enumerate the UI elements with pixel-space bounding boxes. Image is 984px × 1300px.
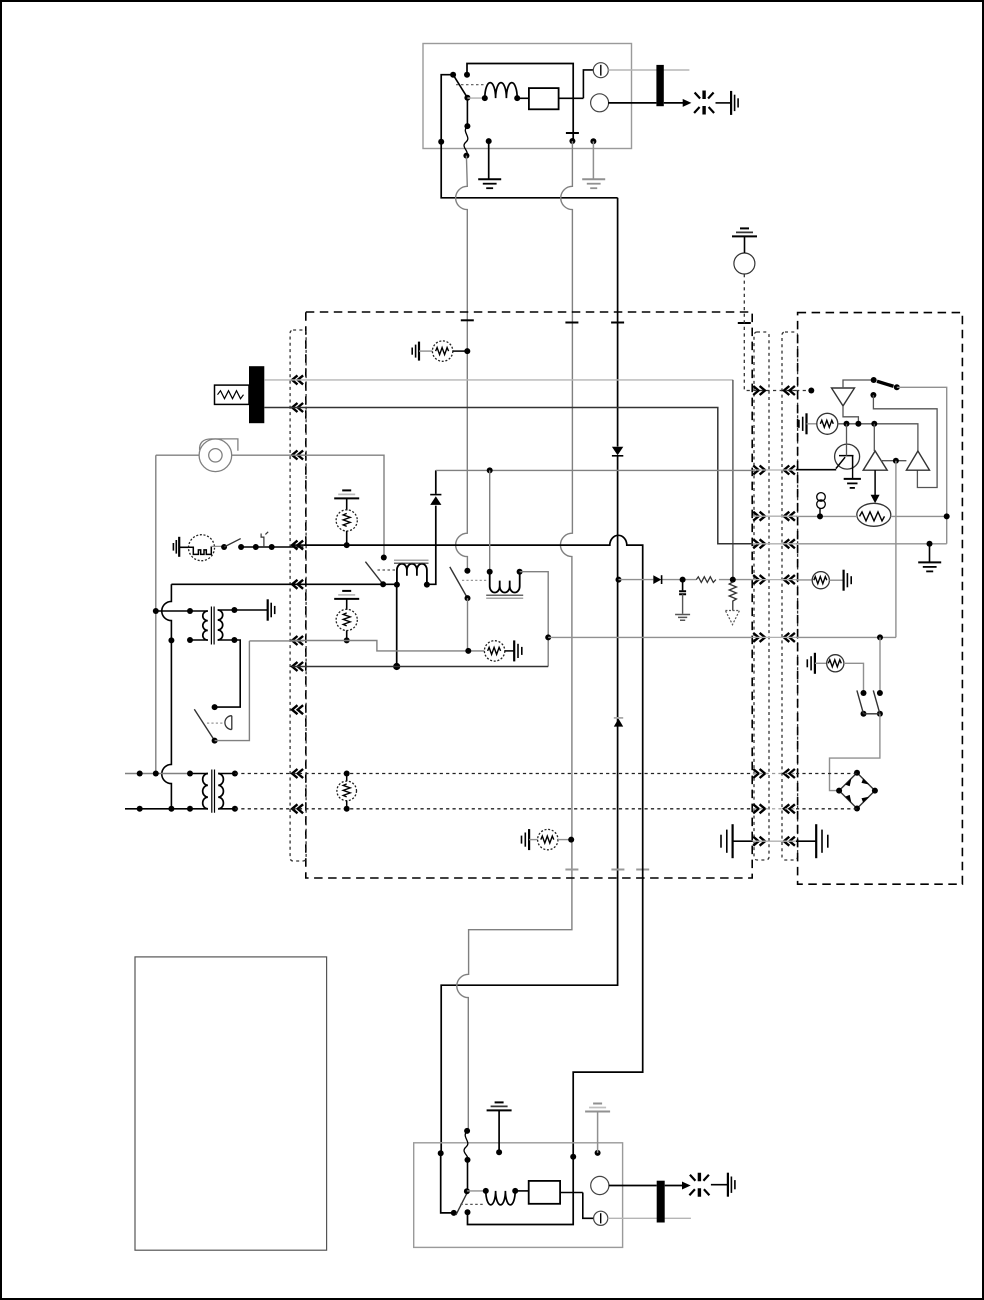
wire branch to lamp (583, 70, 593, 98)
legend box (empty) (135, 957, 327, 1250)
node (817, 513, 823, 519)
node pin (464, 1128, 470, 1134)
wire lead to blade contact (467, 1160, 469, 1191)
wire contact2 path (873, 395, 937, 488)
tick feedthrough (636, 869, 649, 871)
connector pin chevron (784, 466, 795, 475)
sensor resistor R6 (529, 839, 538, 841)
node pin (569, 138, 575, 144)
tick feedthrough (611, 869, 624, 871)
wire row 584 (171, 583, 396, 585)
bridge rectifier D1 (839, 773, 875, 809)
connector pin chevron (784, 633, 795, 642)
connector pin chevron (292, 541, 303, 550)
amplifier A2 (906, 451, 929, 470)
dotted wire row 809 (235, 808, 753, 810)
connector terminal block (656, 65, 663, 106)
connector pin chevron (292, 403, 303, 412)
bus row wires (753, 469, 798, 471)
node (465, 648, 471, 654)
module block lower (529, 1181, 560, 1204)
wire L2 out (520, 572, 549, 667)
ground bars (805, 413, 807, 434)
tick feedthrough (566, 132, 579, 134)
connector pin chevron (292, 804, 303, 813)
connector pin chevron (292, 769, 303, 778)
node pin (438, 1150, 444, 1156)
amplifier A1 (863, 451, 887, 470)
wire DS3 to connector (609, 1185, 657, 1187)
transformer T2 secondary (218, 774, 223, 809)
node (871, 377, 877, 383)
wire top rail (467, 64, 573, 142)
indicator lamp DS1 (593, 63, 608, 78)
lamp DS4 (594, 1211, 608, 1225)
ground bars left of row841 (731, 824, 733, 858)
connector pin chevron (753, 804, 765, 813)
wire amp1 feed (873, 424, 875, 451)
wire switch feed drop (879, 637, 881, 693)
solenoid coil L2 (487, 569, 493, 575)
flexible lead squiggle (464, 126, 468, 156)
node pin (590, 138, 596, 144)
node S3 contact (381, 555, 387, 561)
wire L1 to module (517, 97, 529, 99)
thermistor RT1 ellipse (857, 503, 891, 526)
wire coil left drop (396, 584, 398, 666)
wire S4 pivot drop (467, 598, 469, 651)
wire left vertical (441, 75, 453, 142)
wire selector to column (897, 387, 947, 544)
chassis ground bars (727, 1173, 729, 1197)
wire drop to L2 (489, 470, 491, 571)
diode CR2 down (612, 447, 623, 456)
S6 linkage (460, 1203, 485, 1205)
connector pin chevron (784, 539, 795, 548)
wire row 809 left (125, 808, 190, 810)
node (894, 384, 900, 390)
node (253, 544, 259, 550)
node pin (496, 1149, 502, 1155)
chassis ground bars (730, 91, 732, 115)
connector pin chevron (292, 636, 303, 645)
transformer T1 secondary (218, 610, 223, 640)
inverted ground above sensor (740, 227, 749, 229)
tick feedthrough (611, 322, 624, 324)
wire module output (559, 97, 584, 99)
wire black drop line x618 (441, 198, 617, 1154)
connector pin chevron (784, 769, 795, 778)
node (168, 637, 174, 643)
dual switch S5 (861, 690, 867, 696)
wire row 637 (796, 636, 896, 638)
wire row 516 (796, 515, 947, 517)
relay K1 core (394, 559, 429, 561)
gas sensor circle (734, 253, 755, 274)
wire blower row (156, 455, 384, 557)
wire motor row (241, 546, 303, 548)
wire row 579 (619, 579, 753, 581)
wire R4 to ground (505, 650, 514, 652)
dotted wires to bridge (796, 774, 857, 809)
node (344, 637, 350, 643)
inductor L1 (467, 97, 484, 99)
node (870, 392, 876, 398)
ground G2 (592, 141, 594, 179)
buzzer (225, 716, 232, 730)
lamp DS2 (591, 94, 609, 112)
wire row 611 (156, 610, 190, 612)
connector pin chevron (753, 633, 765, 642)
connector pin chevron (292, 662, 303, 671)
node (855, 421, 861, 427)
wire L-return run (441, 142, 617, 198)
connector pin chevron (784, 575, 795, 584)
motor ground bars (178, 537, 180, 557)
resistor heater block (215, 385, 250, 404)
top unit enclosure box (423, 44, 632, 149)
node (137, 771, 143, 777)
ground bars right of row841 (796, 840, 816, 842)
relay coil K1 (394, 582, 400, 588)
wire row 544 (796, 543, 947, 545)
ground bars (513, 640, 515, 661)
node (568, 837, 574, 843)
wire switch feed drop (383, 557, 385, 559)
connector pin chevron (292, 375, 303, 384)
transformer T1 primary (187, 608, 193, 614)
node (393, 663, 400, 670)
wire A1-A2 link (881, 460, 906, 462)
wire return path (468, 1157, 574, 1225)
open triangle ground (732, 605, 734, 611)
transistor Q1 (835, 444, 860, 469)
node (877, 634, 883, 640)
wire row 470 into Q1 (796, 469, 836, 471)
node door contact (212, 704, 218, 710)
wire row1 drop (732, 380, 734, 580)
inverter U1 (832, 388, 855, 406)
control board box (dashed) (306, 312, 752, 878)
wire motor to switch (211, 545, 224, 548)
ground bars (842, 570, 844, 591)
ground bars (814, 653, 816, 674)
tick feedthrough (565, 322, 578, 324)
connector pin chevron (784, 512, 795, 521)
resistor R8 vertical zigzag (729, 582, 736, 605)
wire diode branch (427, 470, 436, 584)
S3 linkage (378, 569, 396, 571)
spark igniter starburst (702, 91, 705, 115)
node (545, 634, 551, 640)
node (168, 806, 174, 812)
wire bar to connector row1 (264, 379, 733, 381)
node (137, 806, 143, 812)
node (344, 542, 350, 548)
node (680, 577, 686, 583)
ground bars (528, 829, 530, 850)
ground G1 (488, 141, 490, 179)
ground under C1 (675, 615, 690, 621)
igniter resistor R4 (484, 641, 504, 661)
wire igniter to chassis (716, 102, 732, 104)
connector pin chevron (753, 769, 765, 778)
connector pin chevron (753, 466, 765, 475)
wire door return (215, 641, 250, 741)
node (844, 421, 850, 427)
wire left drop x155 (155, 455, 157, 773)
switch S1 linkage (456, 84, 484, 86)
wire row 666 (292, 666, 548, 668)
bias resistor R10 (796, 579, 812, 581)
wire igniter to chassis (711, 1184, 728, 1186)
node (893, 458, 899, 464)
wire motor row continue (292, 544, 304, 546)
wire row 773 left (125, 773, 190, 775)
wire A-output column (895, 461, 897, 638)
inverted ground above box (black) (498, 1110, 500, 1152)
thermostat TH1 (261, 532, 268, 547)
diode CR1 up (430, 496, 441, 505)
connector pin chevron (753, 386, 765, 395)
blower fan B1 (199, 439, 232, 472)
wire x643 to lower unit (573, 870, 643, 1157)
wire bar to connector row2 (264, 408, 753, 544)
wire motor row inside board (303, 535, 642, 869)
tick feedthrough (461, 319, 474, 321)
node (269, 544, 275, 550)
wire T1 sec top to ground (234, 609, 267, 611)
flexible lead squiggle (464, 1131, 468, 1160)
wire x171 drop (162, 584, 172, 809)
node (487, 467, 493, 473)
bias resistor R11 (815, 662, 827, 664)
tick feedthrough (738, 322, 751, 324)
T1 core (211, 607, 214, 645)
node sensor wire end (808, 388, 814, 394)
inverted ground (342, 590, 351, 592)
buzzer linkage (207, 722, 224, 724)
ground bars (418, 342, 420, 361)
wire node row 424 (838, 424, 918, 451)
connector pin chevron (784, 386, 795, 395)
connector pin chevron (292, 451, 303, 460)
tick feedthrough (565, 869, 578, 871)
connector housing left (dotted) (290, 330, 306, 861)
inductor L3 (467, 1190, 486, 1192)
switch S1 blade (450, 72, 456, 78)
connector housing right A (dotted) (754, 332, 769, 860)
wire U1 top feed (843, 380, 874, 388)
connector pin chevron (753, 512, 765, 521)
wire ground to motor (179, 546, 188, 548)
sensor board box (dashed) (798, 313, 963, 885)
terminal bar (black) (249, 366, 264, 423)
node pin (570, 1154, 576, 1160)
node (730, 577, 736, 583)
ground bars (267, 599, 269, 620)
wire gray drop line x571 (457, 141, 573, 1131)
selector switch blade (877, 381, 894, 386)
wire branch to lamp (583, 1193, 594, 1219)
wire L3 to module (515, 1190, 529, 1192)
module block (magnetron driver) (529, 88, 559, 109)
wire T1 sec bottom (215, 640, 241, 707)
connector pin chevron (753, 575, 765, 584)
noise filter resistor R1 (346, 498, 348, 510)
bias resistor R9 (807, 423, 817, 425)
wire module out (560, 1192, 583, 1194)
filter resistor R0 (419, 350, 432, 352)
connector pin chevron (292, 580, 303, 589)
wire DS4 to connector (608, 1217, 691, 1219)
motor M1 (189, 535, 215, 561)
node switch contact (464, 72, 470, 78)
S4 linkage (462, 579, 488, 581)
connector terminal block lower (657, 1181, 665, 1223)
thermal fuse F1 (819, 508, 821, 516)
wire lamp DS2 to connector (608, 102, 656, 104)
switch S3 blade (365, 562, 383, 585)
connector pin chevron (753, 539, 765, 548)
capacitor C1 (682, 580, 684, 591)
ground K (929, 544, 931, 562)
diode CR3 (653, 575, 661, 584)
node (153, 771, 159, 777)
lamp DS3 (591, 1176, 609, 1194)
dotted sensor wire (744, 274, 797, 391)
transformer T2 primary (187, 771, 193, 777)
node pin (595, 1150, 601, 1156)
wire A1 base arrow (874, 470, 876, 495)
wire left drop in box (441, 1153, 454, 1213)
node pin (438, 139, 444, 145)
node (153, 608, 159, 614)
spark igniter starburst lower (698, 1173, 701, 1197)
switch S4 blade (450, 567, 468, 598)
noise filter resistor R2 (346, 599, 348, 610)
node (465, 1157, 471, 1163)
node pin (486, 138, 492, 144)
node open contact (465, 1209, 471, 1215)
wire U1 output jog (843, 406, 858, 424)
ground under Q1 (844, 478, 861, 480)
door switch blade (194, 709, 214, 740)
inverted ground above box (gray) (597, 1112, 599, 1153)
inverted ground (342, 489, 351, 491)
L2 core (486, 594, 523, 596)
lamp resistor R5 (344, 771, 350, 777)
switch S2 blade (221, 544, 227, 550)
connector pin chevron (784, 837, 795, 846)
wire S5 to bridge (830, 714, 880, 791)
node (871, 421, 877, 427)
wire row 470 (436, 469, 753, 471)
connector pin chevron (292, 705, 303, 714)
node S4 contact (464, 568, 470, 574)
T2 core (212, 770, 215, 813)
switch S6 blade (451, 1210, 457, 1216)
wire gray drop line x467 (456, 156, 468, 571)
node (616, 577, 622, 583)
connector housing right B (dotted) (782, 332, 798, 860)
wire Q1 collector feed (846, 424, 848, 456)
wire blade to flex lead (466, 98, 468, 126)
node (944, 513, 950, 519)
wire with arrow to igniter (665, 1185, 684, 1187)
resistor R7 zigzag (696, 577, 716, 583)
wire Q1 emitter to ground (852, 469, 854, 479)
dotted wire row 773 (235, 773, 753, 775)
wire with arrow to igniter (664, 102, 684, 104)
wire row 640 (249, 640, 303, 642)
wire lamp DS1 to connector (608, 69, 689, 71)
connector pin chevron (753, 837, 765, 846)
wire row 637 (548, 636, 753, 638)
node (464, 348, 470, 354)
diode CR4 up (614, 719, 623, 727)
lower unit enclosure box (414, 1143, 623, 1248)
connector pin chevron (784, 804, 795, 813)
node (927, 541, 933, 547)
